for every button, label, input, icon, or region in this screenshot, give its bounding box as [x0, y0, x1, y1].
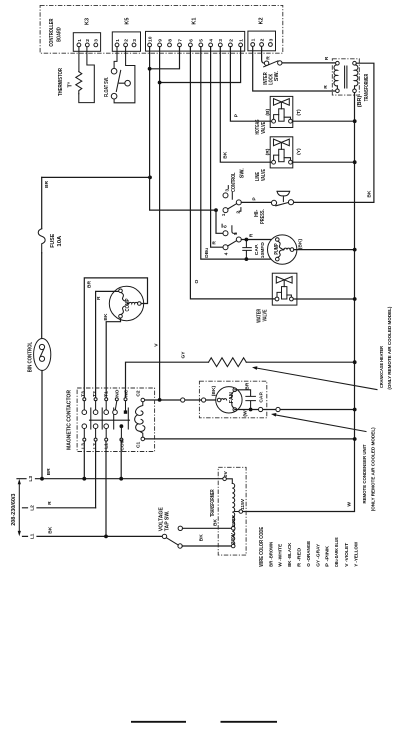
thermistor T1 [58, 47, 82, 96]
connector K5 [112, 18, 140, 52]
svg-text:VALVE: VALVE [261, 169, 267, 181]
svg-text:P -PINK: P -PINK [325, 545, 331, 567]
wire water valve to bus [293, 298, 354, 300]
wire contact 5 to pump (R) [241, 239, 275, 241]
wire fan bottom to bus (W) [235, 409, 355, 411]
wire comp top terminal to contactor T2 (R) [96, 291, 119, 397]
line valve LV [255, 137, 302, 181]
svg-text:NC: NC [124, 389, 130, 397]
wire K1 pin4 to control switch common 4 (R) [211, 47, 223, 248]
supply span arrow 208-230/60/3 [11, 479, 21, 536]
svg-text:BIN CONTROL: BIN CONTROL [28, 341, 34, 372]
svg-text:VALVE: VALVE [263, 309, 269, 321]
control switch CS [221, 168, 245, 256]
svg-text:R: R [96, 296, 102, 300]
svg-text:6: 6 [188, 39, 194, 42]
svg-text:GY -GRAY: GY -GRAY [315, 543, 321, 567]
connector circles on fan return [259, 407, 263, 411]
svg-text:(ONLY REMOTE AIR COOLED MODEL): (ONLY REMOTE AIR COOLED MODEL) [387, 306, 393, 389]
svg-text:BR: BR [87, 280, 93, 288]
wire transformer secondary top to HI-PRESS (BK) [294, 63, 374, 202]
wire contactor C2 to fan (BK) [145, 399, 218, 401]
wire interlock to control transformer primary top (R) [282, 62, 336, 64]
svg-text:1: 1 [221, 213, 227, 216]
svg-text:O -ORANGE: O -ORANGE [306, 540, 312, 567]
wire K1 pin1 jog to pin9 net [160, 47, 241, 83]
svg-text:CRANKCASE HEATER: CRANKCASE HEATER [379, 346, 385, 388]
svg-text:R: R [212, 241, 218, 245]
wire K1 pin5 to pump (DBu) [201, 47, 276, 260]
svg-text:7: 7 [177, 39, 183, 42]
svg-text:C2: C2 [136, 390, 142, 397]
label CONTROLLER BOARD [49, 19, 62, 47]
svg-text:8: 8 [167, 39, 173, 42]
supply line L2 (R) [23, 501, 96, 511]
contactor NO contact [113, 389, 121, 414]
contactor coil C1-C2 [135, 390, 145, 448]
svg-text:REMOTE CONDENSER UNIT: REMOTE CONDENSER UNIT [362, 445, 368, 504]
junction pin9 net / fan wire [158, 398, 162, 402]
svg-text:BK: BK [103, 313, 109, 321]
wire comp bottom terminal to contactor T1 (BK) [106, 318, 120, 398]
svg-text:6: 6 [222, 225, 228, 228]
svg-text:208V: 208V [231, 515, 237, 527]
svg-text:L1: L1 [29, 533, 35, 539]
fan capacitor CAP [235, 390, 265, 410]
svg-text:1: 1 [239, 39, 245, 42]
wire color code legend [259, 526, 359, 566]
svg-text:1: 1 [251, 38, 257, 41]
svg-text:9: 9 [158, 39, 164, 42]
supply line L1 (BK) [23, 526, 163, 539]
junction cap bottom [245, 257, 249, 261]
wire contactor L3 down [83, 441, 85, 479]
wire K1 pin3 to line valve (BK) [220, 47, 271, 163]
junction fan cap bottom [249, 408, 253, 412]
junction cap top [245, 238, 249, 242]
svg-text:VALVE: VALVE [261, 122, 267, 134]
svg-text:L3: L3 [80, 443, 86, 449]
junction bus/C1 [353, 437, 357, 441]
svg-text:CONTROLLER: CONTROLLER [49, 19, 55, 47]
magnetic contactor MC [67, 388, 155, 452]
svg-text:C1: C1 [136, 441, 142, 448]
junction on BR wire at K1 pin10 net [148, 176, 152, 180]
junction L3/contactor COM [119, 477, 123, 481]
svg-text:SW.: SW. [239, 168, 245, 179]
wire hot gas valve to bus (T) [292, 120, 354, 122]
wire comp run terminal to contactor T3 (BR) [84, 278, 147, 398]
hot gas valve HGV [255, 96, 302, 134]
svg-text:BR: BR [44, 180, 50, 188]
svg-text:FLOAT SW.: FLOAT SW. [104, 77, 110, 97]
svg-text:TAP SW.: TAP SW. [165, 510, 171, 531]
wire tap switch to 230V tap (BK) [182, 545, 231, 547]
remote condenser unit box [199, 381, 266, 418]
svg-text:TRANSFORMER: TRANSFORMER [210, 489, 216, 517]
svg-text:2: 2 [260, 38, 266, 41]
svg-text:T°: T° [67, 82, 73, 88]
svg-text:T2: T2 [92, 391, 98, 397]
contactor NC contact [124, 389, 130, 429]
junction bus/pump [353, 248, 357, 252]
junction pin10/pin7 [148, 67, 152, 71]
svg-text:R: R [324, 56, 330, 60]
interlock switch ILS [263, 61, 282, 85]
wire K2 pin2 to interlock switch [262, 47, 265, 64]
svg-text:CONTROL: CONTROL [231, 172, 237, 192]
junction pin9/pin1 [158, 81, 162, 85]
svg-text:(T): (T) [296, 109, 302, 116]
svg-text:R -RED: R -RED [297, 547, 303, 567]
svg-text:BK: BK [199, 534, 205, 542]
compressor motor COMP [109, 286, 143, 320]
svg-text:1: 1 [77, 39, 83, 42]
svg-text:(BK): (BK) [298, 239, 304, 250]
pump motor PM [268, 235, 304, 264]
wire left rail middle [41, 253, 43, 339]
svg-text:BK: BK [222, 151, 228, 159]
footer line marks [131, 721, 277, 723]
svg-text:CAP.: CAP. [259, 391, 265, 403]
svg-text:K1: K1 [191, 18, 197, 25]
wire contactor COM down to L3 bus [120, 441, 122, 479]
svg-text:5: 5 [199, 39, 205, 42]
connector K1 [146, 18, 245, 52]
svg-text:0V: 0V [223, 470, 229, 477]
svg-text:W -WHITE: W -WHITE [278, 543, 284, 567]
svg-text:2: 2 [228, 39, 234, 42]
fan motor FAN [211, 382, 250, 416]
svg-text:BR -BROWN: BR -BROWN [269, 541, 275, 566]
contactor pole T3-L3 [80, 391, 91, 449]
svg-text:2: 2 [124, 39, 130, 42]
connector circles on fan feed [181, 398, 185, 402]
wire K1 pin9 down to fan net (V) [159, 47, 161, 400]
svg-text:GY: GY [180, 351, 186, 359]
svg-text:3: 3 [132, 39, 138, 42]
svg-text:(BR): (BR) [357, 96, 363, 108]
wire contactor NC to crankcase heater (GY) [126, 362, 209, 397]
wire BR from K1 pin10 net to left rail [42, 176, 150, 178]
wire left rail lower to L3 bus [41, 371, 43, 479]
svg-text:(B): (B) [265, 108, 271, 115]
svg-text:V -VIOLET: V -VIOLET [344, 543, 350, 567]
svg-text:VOLTAGE: VOLTAGE [158, 507, 164, 531]
svg-text:TRANSFORMER: TRANSFORMER [364, 74, 370, 102]
label REMOTE CONDENSER UNIT with arrow [271, 413, 376, 511]
label CRANKCASE HEATER with arrow [252, 306, 393, 389]
junction bus/heater [353, 360, 357, 364]
svg-text:BR: BR [46, 468, 52, 476]
svg-text:(ONLY REMOTE AIR COOLED MODEL): (ONLY REMOTE AIR COOLED MODEL) [370, 427, 376, 511]
junction bus/hotgas [353, 119, 357, 123]
svg-text:SW.: SW. [274, 71, 280, 82]
svg-text:WIRE COLOR CODE: WIRE COLOR CODE [259, 526, 265, 566]
wire thermistor return loop to K3 pin 2 [79, 47, 95, 103]
fuse F1 10A [38, 229, 63, 253]
connector K3 [73, 18, 100, 51]
svg-text:(BK): (BK) [211, 386, 217, 397]
svg-text:FUSE: FUSE [50, 233, 56, 247]
controller board outline [40, 5, 283, 53]
wire K1 pin2 to hot gas valve (P) [230, 47, 271, 122]
svg-text:3: 3 [94, 39, 100, 42]
svg-text:2: 2 [85, 39, 91, 42]
junction control switch feed [214, 208, 218, 212]
junction bus/linevalve [353, 160, 357, 164]
wire K1 pin10 down and right to control switch [150, 47, 216, 211]
svg-text:T3: T3 [80, 391, 86, 397]
junction L3/contactor L3 [82, 477, 86, 481]
svg-text:BR: BR [244, 382, 250, 390]
svg-text:10MFD: 10MFD [260, 242, 266, 259]
svg-text:THERMISTOR: THERMISTOR [58, 68, 64, 96]
wire contactor L1 down [105, 441, 107, 536]
wire line valve to bus (Y) [292, 161, 354, 163]
connector K2 [248, 17, 276, 50]
svg-text:L2: L2 [29, 505, 35, 511]
voltage tap switch VTS [158, 507, 182, 548]
svg-text:K5: K5 [124, 18, 130, 25]
svg-text:BK: BK [367, 190, 373, 198]
svg-text:BK: BK [47, 526, 53, 534]
svg-text:R: R [323, 85, 329, 89]
hi-press switch HPS [254, 191, 294, 224]
svg-text:R: R [266, 56, 272, 60]
junction bus/fan [353, 408, 357, 412]
svg-text:K3: K3 [85, 18, 91, 25]
svg-text:BOARD: BOARD [56, 27, 62, 42]
svg-text:NO: NO [115, 389, 121, 397]
svg-text:R: R [249, 233, 255, 237]
wire pump to bus (BK) [294, 249, 355, 251]
svg-text:CAP.: CAP. [254, 244, 260, 256]
svg-text:COM: COM [119, 439, 125, 450]
svg-text:Y -YELLOW: Y -YELLOW [353, 541, 359, 566]
svg-text:L2: L2 [92, 443, 98, 449]
wire tap switch to 208V tap (BK) [183, 527, 232, 529]
svg-text:4: 4 [209, 39, 215, 42]
junction bus/watervalve [353, 297, 357, 301]
wire K1 pin6 to water valve (O) [190, 47, 275, 299]
svg-text:115V: 115V [240, 498, 246, 510]
svg-text:3: 3 [224, 189, 230, 192]
svg-text:R: R [47, 501, 53, 505]
svg-text:3: 3 [218, 39, 224, 42]
junction L3/left rail [40, 477, 44, 481]
wire K2 pin1 to control transformer primary bottom (R) [253, 47, 336, 91]
contactor linkage bar [90, 419, 130, 421]
svg-text:T1: T1 [103, 391, 109, 397]
power transformer T1 (autotransformer) [210, 467, 246, 555]
svg-text:W: W [346, 502, 352, 507]
contactor pole T1-L1 [103, 391, 113, 449]
svg-text:4: 4 [223, 252, 229, 255]
contactor COM contact [119, 424, 125, 450]
svg-text:HI-: HI- [254, 210, 260, 218]
capacitor C 10MFD [243, 240, 266, 260]
svg-text:3: 3 [268, 38, 274, 41]
contactor pole T2-L2 [92, 391, 102, 449]
svg-text:(R): (R) [265, 148, 271, 155]
svg-text:COMP: COMP [125, 298, 131, 311]
svg-text:10A: 10A [57, 236, 63, 247]
svg-text:MAGNETIC CONTACTOR: MAGNETIC CONTACTOR [67, 390, 73, 450]
svg-text:BK -BLACK: BK -BLACK [287, 542, 293, 566]
svg-text:L3: L3 [28, 476, 34, 482]
svg-text:FAN: FAN [229, 392, 235, 403]
svg-text:230V: 230V [230, 532, 236, 544]
water valve WV [257, 273, 297, 323]
svg-text:10: 10 [148, 36, 154, 42]
supply line L3 (BR) [17, 468, 223, 482]
wire K1 pin7 jog to pin10 net [150, 47, 180, 69]
wire contactor C1 to bus [145, 438, 355, 440]
wire heater to bus [246, 361, 354, 363]
wire feed to contact 6 [216, 210, 223, 233]
wire contactor L2 down [95, 441, 97, 508]
wire contact 2 to HI-PRESS (P) [241, 201, 271, 203]
wire left rail upper [41, 177, 43, 228]
svg-text:1: 1 [115, 39, 121, 42]
svg-text:(Y): (Y) [296, 148, 302, 155]
svg-text:PRESS.: PRESS. [260, 209, 266, 224]
svg-text:K2: K2 [259, 17, 265, 24]
crankcase heater R-heat [209, 358, 247, 367]
svg-text:PUMP: PUMP [274, 243, 280, 254]
bin control switch [28, 339, 51, 373]
svg-text:DBu: DBu [204, 248, 210, 258]
svg-text:208-230/60/3: 208-230/60/3 [11, 493, 17, 525]
float switch FS [104, 47, 135, 103]
wire secondary bottom bus down right side [243, 93, 355, 512]
control transformer T2 [332, 59, 370, 108]
junction L1/contactor L1 [104, 535, 108, 539]
svg-text:O: O [194, 280, 200, 284]
svg-text:DBu-DARK BLUE: DBu-DARK BLUE [334, 537, 340, 567]
